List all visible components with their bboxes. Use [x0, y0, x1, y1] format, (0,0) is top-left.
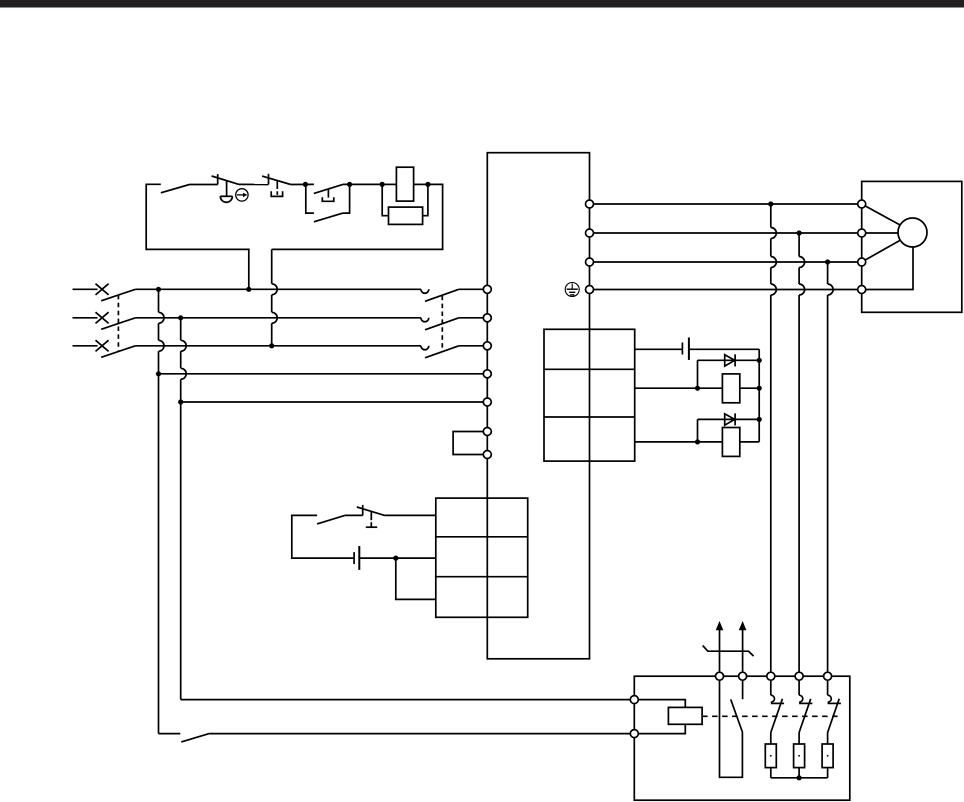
battery BT1	[354, 546, 359, 570]
wire inverter output V	[590, 232, 862, 234]
ground symbol at inverter E terminal	[565, 283, 579, 297]
wire vertical tap S to brake circuit	[181, 318, 187, 700]
node R phase tap	[156, 287, 161, 292]
wire battery junction to grid row 3	[396, 558, 436, 599]
motor box	[862, 181, 962, 312]
brake contactor pole 2	[799, 676, 812, 744]
wire interlock branch bracket	[292, 515, 354, 558]
switch S2 brake release	[181, 734, 209, 742]
terminals on motor box	[858, 200, 866, 294]
braking resistor R1	[635, 374, 760, 403]
wire brake resistor common bus	[771, 777, 828, 779]
wire control power line r	[159, 373, 488, 375]
terminals on brake unit top	[716, 672, 832, 680]
wire vertical tap R to brake circuit	[159, 289, 165, 733]
MC mechanical link (dashed)	[441, 296, 443, 352]
arrow output 1	[716, 621, 724, 676]
node R1 left	[695, 386, 700, 391]
wire motor W lead	[862, 240, 901, 262]
wire battery to grid row 2	[359, 557, 436, 559]
node R1 right	[757, 386, 762, 391]
node battery junction	[393, 556, 398, 561]
wire inverter output U	[590, 203, 862, 205]
circuit breaker CB1 pole 3	[73, 340, 136, 357]
contactor MC pole 2	[421, 318, 487, 330]
node D2 cathode	[757, 417, 762, 422]
node R2 left	[695, 439, 700, 444]
wire motor V lead	[862, 232, 898, 234]
diode D2	[698, 413, 760, 442]
switch S1 power on-off	[161, 185, 190, 193]
node W tap	[825, 259, 830, 264]
terminals on inverter right side U V W E	[586, 200, 594, 294]
brake resistor RB3	[822, 744, 833, 778]
wire braking bus right vertical	[758, 349, 760, 442]
wire W drop to brake unit	[828, 262, 834, 676]
circuit breaker CB1 pole 2	[73, 312, 136, 329]
pushbutton PB3 start NO contact	[314, 184, 343, 201]
jumper bar P1-P	[453, 432, 483, 455]
node bus center	[797, 775, 802, 780]
wire T phase line	[135, 345, 421, 347]
circuit breaker CB1 pole 1	[73, 284, 136, 301]
header bar	[0, 0, 964, 8]
wire control power line s	[181, 401, 488, 403]
brake contact inside unit	[720, 676, 743, 777]
wire PB1 to PB2	[239, 183, 269, 185]
terminals on brake unit left	[630, 696, 638, 738]
node U tap	[768, 201, 773, 206]
brake relay coil K2	[634, 700, 702, 734]
CB1 mechanical link (dashed)	[117, 295, 119, 351]
wire node B to node C	[343, 183, 382, 185]
contactor MC pole 1	[421, 289, 487, 301]
wire PB2 to node A	[291, 183, 314, 185]
node R phase control drop	[246, 287, 251, 292]
motor M1	[898, 218, 927, 247]
node D1 cathode	[757, 358, 762, 363]
terminal block grid inside inverter	[544, 329, 635, 461]
wire S1 to PB1	[190, 184, 218, 186]
brake resistor RB1	[765, 744, 776, 778]
wire brake circuit upper feed	[181, 699, 635, 701]
node S phase tap	[178, 315, 183, 320]
brake unit box	[634, 676, 850, 800]
resistor R0 surge suppressor	[382, 184, 428, 224]
disconnect mark across brake leads	[703, 646, 754, 657]
switch S3 NO contact	[317, 515, 345, 524]
contactor MC pole 3	[421, 346, 487, 358]
node on T phase	[269, 343, 274, 348]
wire motor earth lead	[862, 247, 913, 290]
node D	[425, 182, 430, 187]
wire S2 to brake unit	[209, 733, 634, 735]
wire inverter output W	[590, 261, 862, 263]
pushbutton PB1 emergency stop NC contact	[212, 174, 239, 202]
relay coil K1	[382, 167, 428, 201]
diode D1	[698, 354, 760, 388]
node C	[380, 182, 385, 187]
wire control loop right return to T phase	[272, 184, 443, 345]
node line s junction	[178, 399, 183, 404]
node A	[303, 182, 308, 187]
brake contactor pole 3	[828, 676, 841, 744]
wire inverter earth E	[590, 289, 862, 291]
wire V drop to brake unit	[799, 233, 805, 676]
thermal interlock NC contact	[357, 505, 385, 527]
inverter block U1	[487, 153, 589, 659]
braking resistor R2	[635, 428, 760, 457]
pushbutton PB2 stop NC contact	[262, 174, 291, 197]
twist-release symbol of PB1	[236, 189, 248, 201]
wire brake circuit lower feed	[159, 733, 181, 735]
wire motor U lead	[862, 204, 900, 225]
node line r junction	[156, 371, 161, 376]
auxiliary seal-in contact K1a	[306, 184, 350, 221]
brake resistor RB2	[794, 744, 805, 778]
capacitor C1	[635, 338, 760, 360]
control connector grid on inverter left	[436, 498, 528, 617]
wire R phase line	[135, 288, 421, 290]
wire S3 to thermal contact	[345, 514, 363, 516]
wire control loop left bracket to R phase	[146, 184, 249, 289]
wire U drop to brake unit	[771, 204, 777, 676]
arrow output 2	[739, 621, 747, 676]
K2 mechanical link (dashed)	[702, 715, 838, 717]
brake contactor pole 1	[771, 676, 784, 744]
wire S phase line	[135, 317, 421, 319]
node V tap	[797, 230, 802, 235]
node B	[347, 182, 352, 187]
wire NC contact to grid row 1	[385, 514, 436, 516]
terminals on inverter left side R S T r s P1 P	[483, 285, 491, 458]
